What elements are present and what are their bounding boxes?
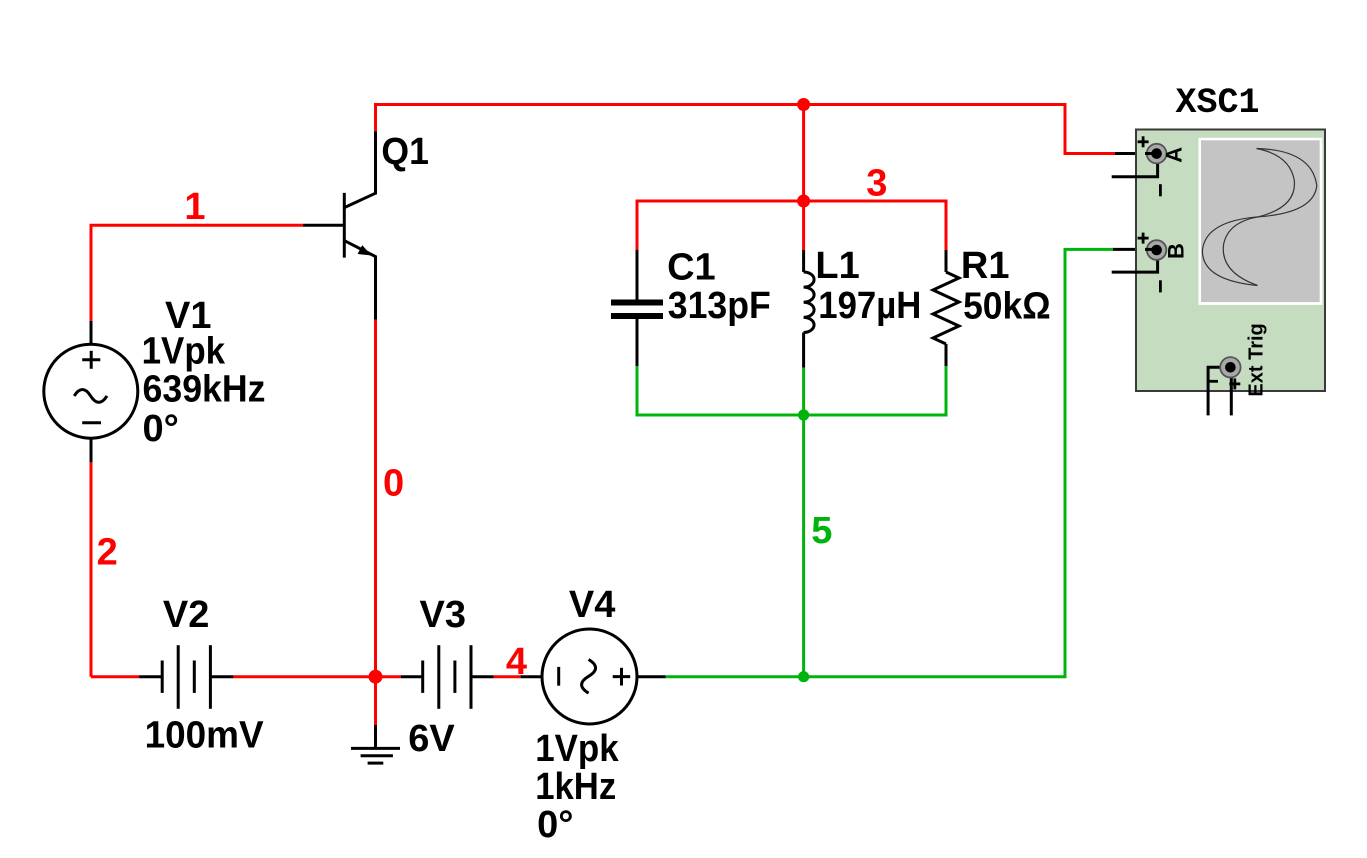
wire net5 green rail bottom of tank bbox=[637, 414, 946, 417]
V4 left pin bbox=[521, 675, 543, 678]
C1 top pin bbox=[636, 250, 639, 300]
scope sine outer bottom bbox=[1202, 217, 1258, 286]
base lead bbox=[303, 224, 343, 227]
ground bar 3 bbox=[368, 762, 384, 765]
wire C1 bottom green bbox=[636, 366, 639, 417]
svg-text:100mV: 100mV bbox=[145, 715, 265, 757]
emitter diagonal bbox=[344, 241, 375, 257]
svg-text:313pF: 313pF bbox=[668, 285, 771, 327]
source V4 bbox=[521, 629, 666, 724]
svg-text:5: 5 bbox=[811, 510, 832, 552]
V2 plate short 1 bbox=[161, 661, 164, 693]
R1 top pin bbox=[945, 250, 948, 272]
svg-text:639kHz: 639kHz bbox=[143, 368, 266, 410]
terminal B minus sign bbox=[1159, 280, 1162, 292]
wire ground stub red bbox=[374, 677, 377, 725]
V4 sine (rotated) bbox=[582, 660, 596, 694]
scope sine outer top bbox=[1257, 149, 1317, 217]
V2 plate short 2 bbox=[193, 661, 196, 693]
wire scope-A corner vertical bbox=[1064, 103, 1067, 154]
wire scope-A lead black bbox=[1115, 152, 1156, 155]
transistor Q1 bbox=[303, 131, 376, 319]
wire top bus net3 horizontal bbox=[376, 103, 1066, 106]
V1 plus bbox=[82, 358, 100, 361]
junction green bottom dot bbox=[798, 671, 809, 682]
terminal A wire overlay bbox=[1145, 152, 1157, 155]
svg-text:V4: V4 bbox=[569, 584, 615, 626]
L1 top pin bbox=[802, 250, 805, 272]
ext trig minus sign bbox=[1208, 380, 1218, 383]
resistor R1 bbox=[933, 250, 959, 366]
wire node3 rail bbox=[637, 200, 946, 203]
svg-text:B: B bbox=[1164, 243, 1189, 259]
scope sine inner top bbox=[1257, 149, 1295, 217]
capacitor C1 bbox=[611, 250, 663, 366]
terminal B plus sign bbox=[1138, 237, 1149, 240]
wire scope-B lead black bbox=[1113, 248, 1156, 251]
ext trig plus lead bbox=[1230, 376, 1233, 416]
junction bottom dot bbox=[369, 670, 383, 684]
scope screen frame bbox=[1198, 138, 1322, 305]
wire net0 emitter vertical bbox=[374, 320, 377, 677]
junction bus/branch dot bbox=[797, 98, 810, 111]
wire net2 bottom horizontal bbox=[91, 675, 139, 678]
svg-text:1: 1 bbox=[184, 186, 205, 228]
V2 right pin bbox=[210, 675, 233, 678]
ground bbox=[351, 725, 400, 763]
svg-text:A: A bbox=[1162, 147, 1187, 163]
wire V2 to junction bbox=[233, 675, 375, 678]
ext trig circle bbox=[1220, 357, 1240, 377]
C1 bottom pin bbox=[636, 319, 639, 366]
wire net1 vertical from V1 bbox=[90, 225, 93, 321]
scope sine inner bottom bbox=[1223, 217, 1258, 286]
wire collector drop red bbox=[374, 103, 377, 131]
svg-text:1Vpk: 1Vpk bbox=[535, 728, 619, 770]
svg-text:6V: 6V bbox=[408, 718, 455, 760]
wire green to scope B horizontal bbox=[1064, 248, 1114, 251]
svg-text:1Vpk: 1Vpk bbox=[142, 331, 226, 373]
V1 bottom pin bbox=[90, 438, 93, 463]
V4 minus (rotated) bbox=[557, 667, 560, 686]
V1 circle bbox=[44, 344, 138, 438]
wire scope-A horizontal red bbox=[1064, 152, 1116, 155]
ground bar 2 bbox=[361, 754, 393, 757]
terminal B minus stub bbox=[1112, 260, 1158, 272]
V3 left pin bbox=[401, 675, 423, 678]
collector pin vertical bbox=[374, 131, 377, 194]
wire L1 top red bbox=[802, 201, 805, 250]
svg-text:197µH: 197µH bbox=[818, 285, 921, 327]
R1 zigzag bbox=[933, 272, 959, 344]
svg-text:2: 2 bbox=[97, 532, 118, 574]
ext trig minus lead bbox=[1208, 367, 1220, 415]
ground stub bbox=[374, 725, 377, 748]
junction green tank dot bbox=[798, 409, 809, 420]
scope body bbox=[1136, 130, 1325, 392]
scope screen bbox=[1201, 140, 1320, 302]
V2 left pin bbox=[139, 675, 162, 678]
ext trig plus sign bbox=[1229, 382, 1240, 385]
svg-text:V2: V2 bbox=[163, 594, 209, 636]
collector diagonal bbox=[344, 193, 375, 207]
wire R1 bottom green bbox=[945, 366, 948, 417]
V1 sine bbox=[74, 390, 107, 403]
V2 plate long 1 bbox=[177, 645, 180, 709]
wire junction to V3 bbox=[376, 675, 402, 678]
C1 plate 1 bbox=[611, 300, 663, 306]
V1 minus bbox=[82, 421, 101, 424]
wire net1 horizontal to base bbox=[90, 224, 304, 227]
V3 right pin bbox=[471, 675, 494, 678]
terminal A minus sign bbox=[1159, 184, 1162, 196]
svg-text:1kHz: 1kHz bbox=[535, 766, 616, 808]
svg-text:Ext Trig: Ext Trig bbox=[1245, 323, 1267, 396]
wire R1 top red bbox=[945, 200, 948, 251]
svg-text:50kΩ: 50kΩ bbox=[963, 286, 1051, 328]
source V1 bbox=[44, 321, 138, 462]
L1 coil bbox=[804, 272, 815, 332]
svg-text:L1: L1 bbox=[815, 245, 859, 287]
svg-text:3: 3 bbox=[866, 163, 887, 205]
V2 plate long 2 bbox=[209, 645, 212, 709]
base bar bbox=[343, 193, 346, 258]
inductor L1 bbox=[804, 250, 815, 368]
V4 circle bbox=[542, 629, 637, 724]
wire L1 bottom green / net5 vertical bbox=[802, 368, 805, 677]
V3 plate long 1 bbox=[437, 645, 440, 709]
terminal A plus sign bbox=[1138, 140, 1149, 143]
R1 bottom pin bbox=[945, 344, 948, 366]
L1 bottom pin bbox=[802, 333, 805, 368]
V3 plate short 2 bbox=[453, 661, 456, 693]
terminal A circle bbox=[1147, 144, 1167, 164]
wire net4 V3 to V4 bbox=[494, 675, 521, 678]
C1 plate 2 bbox=[611, 313, 663, 319]
svg-text:Q1: Q1 bbox=[381, 131, 429, 173]
wire C1 top red bbox=[636, 200, 639, 251]
battery V2 bbox=[139, 645, 233, 709]
wire green riser to scope B bbox=[1064, 249, 1067, 678]
svg-text:XSC1: XSC1 bbox=[1176, 83, 1260, 123]
terminal B wire overlay bbox=[1145, 248, 1157, 251]
V3 plate short 1 bbox=[421, 661, 424, 693]
svg-text:0°: 0° bbox=[537, 804, 573, 846]
battery V3 bbox=[401, 645, 494, 709]
terminal A minus stub bbox=[1112, 164, 1158, 177]
svg-text:V3: V3 bbox=[420, 594, 466, 636]
V4 plus bbox=[613, 675, 631, 678]
wire net2 vertical bbox=[90, 462, 93, 676]
oscilloscope XSC1 bbox=[1112, 130, 1325, 416]
junction node3 dot bbox=[797, 195, 810, 208]
V4 right pin bbox=[637, 675, 666, 678]
V3 plate long 2 bbox=[470, 645, 473, 709]
svg-text:R1: R1 bbox=[961, 245, 1010, 287]
emitter arrow bbox=[358, 245, 372, 255]
ground bar 1 bbox=[351, 747, 400, 750]
svg-text:C1: C1 bbox=[667, 246, 716, 288]
wire branch bus to node3 bbox=[802, 105, 805, 202]
wire net5 bottom horizontal green bbox=[666, 675, 1065, 678]
svg-text:0: 0 bbox=[383, 462, 404, 504]
emitter pin vertical bbox=[374, 256, 377, 320]
terminal B circle bbox=[1147, 240, 1167, 260]
svg-text:0°: 0° bbox=[143, 408, 179, 450]
V1 top pin bbox=[90, 321, 93, 345]
